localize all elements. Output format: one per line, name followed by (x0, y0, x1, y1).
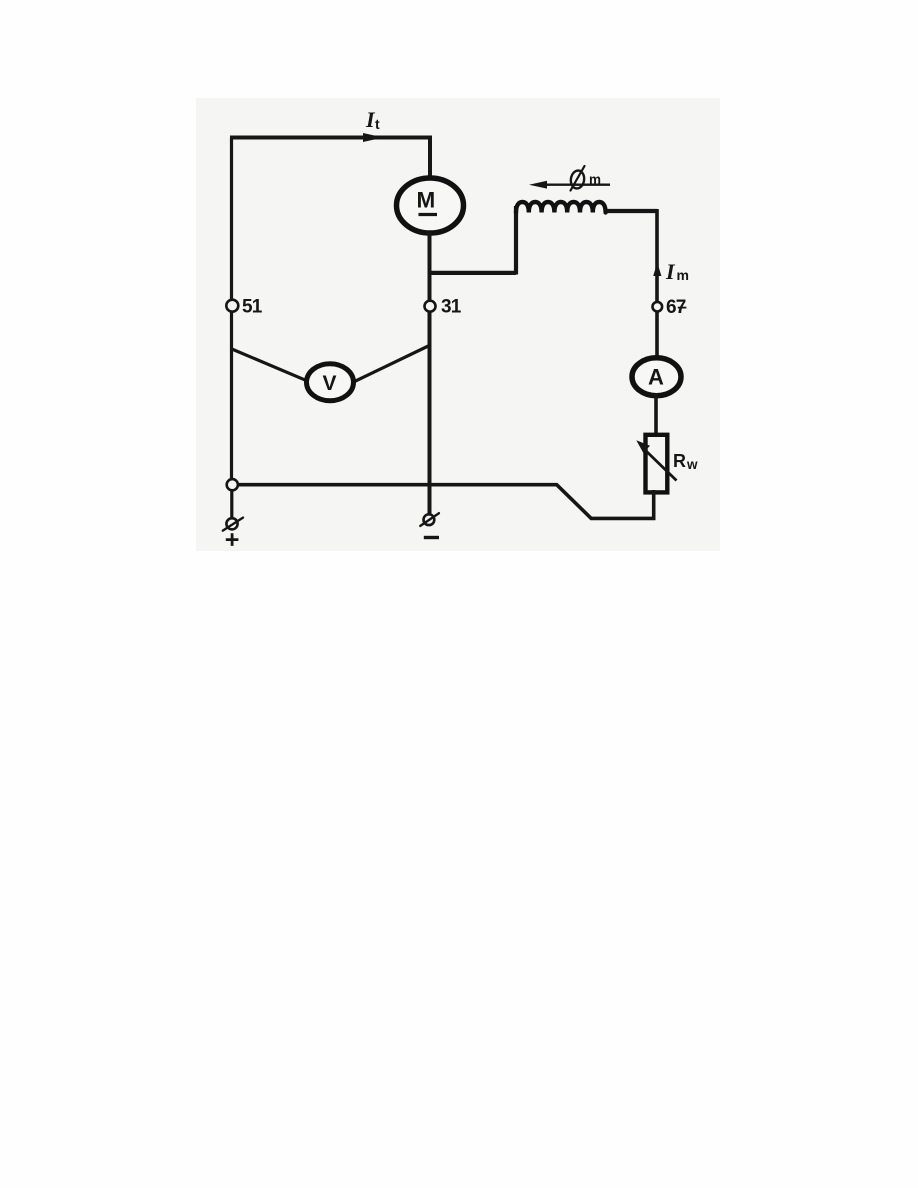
svg-text:I: I (665, 259, 676, 284)
wire voltmeter left diagonal (232, 349, 307, 381)
wire rheostat bottom path to left junction (236, 485, 654, 519)
svg-text:w: w (686, 457, 698, 472)
node 67 (653, 297, 687, 318)
motor M (397, 178, 464, 233)
ammeter A (632, 358, 681, 396)
label Rw (673, 451, 698, 472)
wire junction down to + terminal (230, 490, 233, 517)
node 31 (425, 297, 462, 318)
wire from top corner down to motor (428, 136, 432, 179)
voltmeter V (307, 364, 354, 401)
wire voltmeter right diagonal (354, 346, 430, 383)
wire top horizontal (230, 136, 430, 140)
wire ammeter to rheostat (654, 394, 658, 437)
svg-text:V: V (323, 372, 337, 395)
terminal minus (420, 513, 439, 537)
terminal plus (223, 518, 243, 546)
wire coil right end to corner (606, 209, 657, 213)
svg-text:31: 31 (441, 297, 462, 318)
svg-text:t: t (375, 116, 380, 132)
current arrow Im (653, 263, 661, 277)
svg-text:R: R (673, 451, 686, 471)
junction node left (227, 479, 238, 490)
label phi-m with arrow (529, 166, 610, 191)
inductor field winding coil (516, 202, 606, 213)
svg-text:A: A (648, 365, 664, 390)
label Im (665, 259, 689, 284)
svg-text:m: m (677, 267, 689, 283)
wire motor bottom vertical down to minus terminal (428, 232, 432, 516)
svg-text:51: 51 (242, 297, 263, 318)
resistor Rw rheostat (636, 435, 676, 493)
wire branch from motor bottom to field winding (430, 206, 517, 275)
node 51 (226, 297, 262, 318)
svg-text:m: m (589, 172, 601, 187)
wire right vertical from coil corner down to ammeter (655, 209, 659, 358)
current arrow It (364, 134, 382, 142)
label It (365, 107, 380, 132)
wire left vertical (from + terminal branch up to top-left corner) (230, 138, 233, 486)
svg-text:M: M (417, 188, 436, 213)
